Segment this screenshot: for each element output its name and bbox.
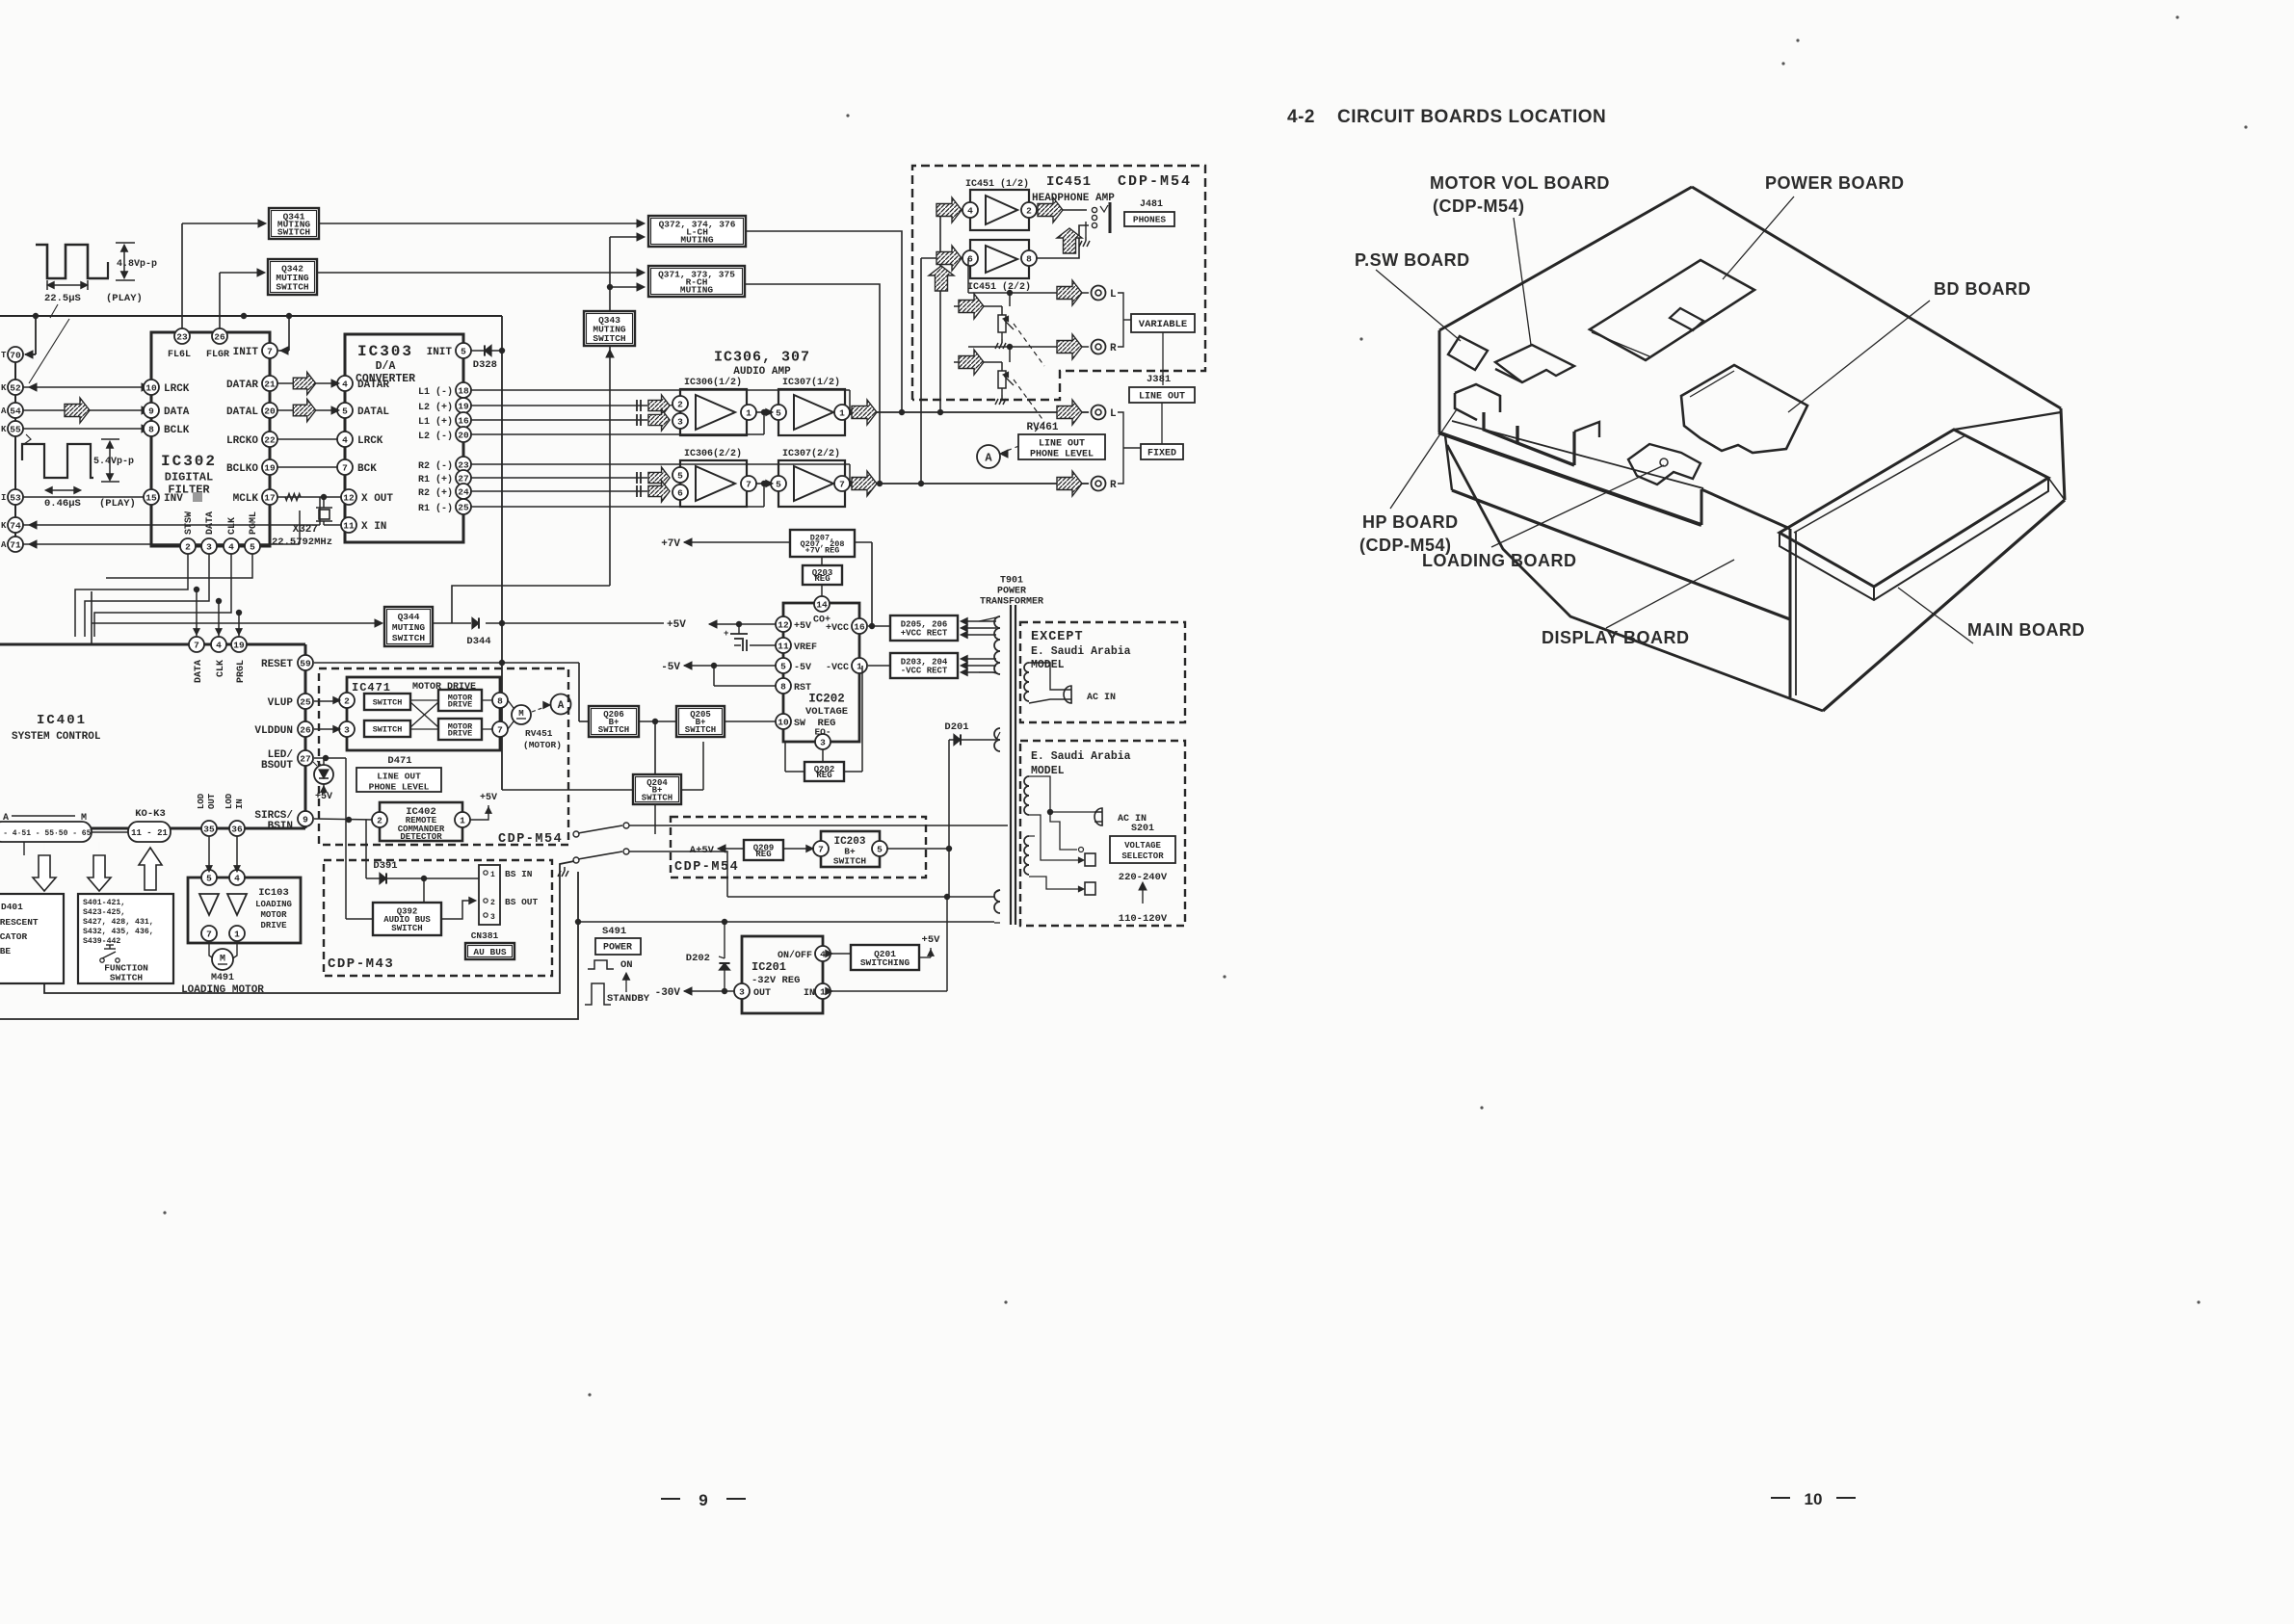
wires IC401 to IC103 [208, 836, 210, 870]
svg-text:4: 4 [967, 205, 973, 216]
svg-text:5: 5 [776, 407, 781, 418]
headphone input wires [940, 209, 962, 211]
svg-text:PHONE LEVEL: PHONE LEVEL [369, 781, 430, 792]
volume pot RV451 (2/2) [954, 361, 1002, 363]
svg-text:IC401: IC401 [37, 713, 87, 728]
INIT wire with diode D328 [471, 350, 502, 352]
wire Q341 out to Q372 [319, 223, 642, 224]
AU BUS box [465, 943, 514, 959]
svg-text:3: 3 [820, 737, 826, 747]
svg-text:S423-425,: S423-425, [83, 908, 125, 917]
D401 fluorescent indicator tube box [0, 894, 64, 983]
R-channel wires from DAC [471, 463, 850, 465]
MAIN board [1780, 430, 2048, 587]
svg-text:BS IN: BS IN [505, 869, 533, 879]
svg-text:SWITCH: SWITCH [110, 972, 144, 982]
IC302 top pins FL6L FLGR [174, 328, 190, 344]
IC201 -32V regulator [742, 936, 823, 1013]
IC302 left pins [144, 380, 159, 395]
STANDBY pulse symbol [585, 983, 611, 1005]
svg-text:PGML: PGML [249, 511, 259, 535]
svg-text:5: 5 [342, 406, 348, 416]
svg-text:LINE OUT: LINE OUT [1139, 392, 1185, 403]
svg-text:R2 (+): R2 (+) [418, 487, 453, 499]
svg-text:23: 23 [458, 459, 469, 470]
EO- wire to Q202 [822, 749, 824, 762]
svg-text:SWITCH: SWITCH [598, 725, 629, 735]
svg-text:7: 7 [267, 346, 273, 356]
svg-text:R1 (+): R1 (+) [418, 474, 453, 485]
+5V feed from D344 [502, 622, 664, 624]
svg-text:3: 3 [206, 541, 212, 552]
svg-text:RST: RST [794, 683, 811, 694]
front slab bottom edge [1452, 490, 1790, 619]
muting block Q372 L-CH [648, 216, 746, 247]
muting block Q371 R-CH [648, 266, 745, 297]
svg-text:D201: D201 [944, 721, 968, 733]
front slab right edge (double) [1789, 529, 1792, 697]
svg-text:Q344: Q344 [398, 612, 420, 622]
svg-text:24: 24 [458, 486, 469, 497]
svg-text:L1 (-): L1 (-) [418, 386, 453, 398]
svg-text:20: 20 [264, 406, 276, 416]
svg-text:REG: REG [816, 771, 831, 780]
svg-text:21: 21 [264, 379, 276, 389]
svg-text:(PLAY): (PLAY) [99, 498, 136, 510]
svg-text:IC302: IC302 [161, 453, 217, 470]
svg-text:L1 (+): L1 (+) [418, 416, 453, 428]
svg-text:DATAL: DATAL [357, 406, 389, 418]
svg-text:11: 11 [343, 520, 355, 531]
svg-text:5: 5 [877, 844, 883, 854]
top face back edge of main board shelf [1954, 412, 2061, 430]
svg-text:CDP-M54: CDP-M54 [1118, 173, 1192, 190]
svg-text:E. Saudi Arabia: E. Saudi Arabia [1031, 645, 1131, 658]
svg-text:1: 1 [820, 986, 826, 997]
svg-text:DATAR: DATAR [357, 380, 389, 391]
svg-text:INV: INV [164, 493, 183, 505]
leader loading [1491, 465, 1664, 547]
svg-text:PHONE LEVEL: PHONE LEVEL [1030, 450, 1094, 460]
svg-text:7: 7 [342, 462, 348, 473]
leader display [1606, 560, 1734, 628]
HP board piece [1455, 384, 1500, 412]
svg-text:L: L [1110, 408, 1117, 420]
svg-text:3: 3 [344, 724, 350, 735]
svg-text:SWITCH: SWITCH [373, 698, 403, 708]
rectifier box D203 204 [890, 653, 958, 678]
svg-text:59: 59 [300, 658, 311, 668]
front slab top edge with notch [1438, 432, 1701, 525]
svg-text:SELECTOR: SELECTOR [1121, 851, 1164, 861]
dashed arrow to A [532, 706, 547, 712]
svg-text:MUTING: MUTING [680, 284, 714, 295]
svg-text:SW: SW [794, 719, 805, 729]
Q209 REG box [744, 840, 783, 860]
leader motor vol [1514, 218, 1531, 345]
svg-text:1: 1 [839, 407, 845, 418]
hollow arrow up to KO-K3 [139, 848, 162, 890]
Q201 switching box [851, 945, 919, 970]
svg-text:-VCC RECT: -VCC RECT [901, 667, 948, 676]
svg-text:PRGL: PRGL [236, 660, 247, 683]
phone jack J481 [1092, 207, 1096, 212]
muting switch Q342 [268, 259, 317, 295]
wire to pin 71 [23, 543, 300, 545]
svg-text:LRCK: LRCK [164, 383, 190, 395]
svg-text:3: 3 [739, 986, 745, 997]
svg-text:5: 5 [780, 661, 786, 671]
svg-text:MODEL: MODEL [1031, 659, 1065, 671]
loading motor M491 [209, 941, 215, 959]
B+ switch Q206 [589, 706, 639, 737]
svg-text:IC307(2/2): IC307(2/2) [782, 448, 840, 459]
svg-text:SWITCH: SWITCH [642, 793, 672, 802]
svg-text:STSW: STSW [184, 511, 195, 535]
svg-text:REG: REG [755, 850, 771, 859]
wire Q342 out to Q371 [317, 272, 642, 274]
FIXED box [1161, 403, 1163, 444]
svg-text:LOADING: LOADING [255, 900, 292, 909]
svg-text:LOADING BOARD: LOADING BOARD [1422, 551, 1577, 570]
IC303 right pins [456, 343, 471, 358]
vertical wire x=633 to Q343 [609, 237, 611, 311]
LED symbol [314, 757, 324, 759]
svg-text:SYSTEM CONTROL: SYSTEM CONTROL [12, 731, 101, 743]
svg-text:4: 4 [820, 949, 826, 959]
muting switch Q341 [269, 208, 319, 239]
CDP-M43 dashed box [324, 860, 552, 976]
svg-text:+VCC RECT: +VCC RECT [901, 629, 948, 639]
svg-text:5: 5 [461, 346, 466, 356]
svg-text:LINE OUT: LINE OUT [377, 771, 421, 781]
loading motor RV451 [512, 705, 531, 724]
MOTOR VOL board [1495, 345, 1574, 382]
svg-text:7: 7 [194, 640, 199, 650]
svg-text:19: 19 [458, 401, 469, 411]
svg-text:HP BOARD: HP BOARD [1362, 512, 1459, 532]
EXCEPT E.Saudi Arabia MODEL dashed box [1020, 622, 1185, 722]
svg-text:VARIABLE: VARIABLE [1139, 319, 1187, 330]
svg-text:LINE OUT: LINE OUT [1039, 439, 1085, 450]
svg-text:POWER: POWER [603, 943, 632, 954]
svg-text:23: 23 [176, 331, 188, 342]
IC302 right pins [262, 343, 277, 358]
svg-text:5: 5 [776, 479, 781, 489]
svg-text:SWITCH: SWITCH [373, 725, 403, 735]
fixed jacks bracket [1118, 412, 1123, 484]
POWER board [1590, 260, 1754, 360]
svg-text:BD BOARD: BD BOARD [1934, 279, 2031, 299]
svg-text:IN: IN [804, 988, 815, 999]
svg-text:BSOUT: BSOUT [261, 760, 293, 772]
svg-text:IC451: IC451 [1046, 174, 1092, 190]
L-channel wires from DAC with caps [471, 389, 850, 391]
svg-text:CDP-M43: CDP-M43 [328, 956, 394, 972]
bottom rail outer [0, 872, 578, 1019]
svg-text:26: 26 [300, 724, 311, 735]
main board thickness lip [1780, 478, 2048, 600]
wire LRCK [23, 386, 147, 388]
svg-text:4: 4 [216, 640, 222, 650]
svg-text:L2 (+): L2 (+) [418, 402, 453, 413]
wire FL6L to Q341 [181, 223, 183, 328]
wire DATA with bus arrow [23, 409, 147, 411]
IC302 bottom pins with vertical labels [180, 538, 196, 554]
svg-text:FLGR: FLGR [206, 350, 229, 360]
svg-text:A: A [558, 700, 565, 712]
svg-text:FL6L: FL6L [168, 350, 191, 360]
svg-text:(CDP-M54): (CDP-M54) [1433, 196, 1525, 216]
svg-text:X OUT: X OUT [361, 493, 393, 505]
IC401 right pins [298, 655, 313, 670]
svg-text:R2 (-): R2 (-) [418, 460, 453, 472]
svg-text:+: + [724, 629, 728, 639]
IC303 D/A converter block [345, 334, 463, 542]
wire to pin 74 [23, 524, 320, 526]
svg-text:4: 4 [342, 434, 348, 445]
leader power [1723, 196, 1794, 279]
svg-text:22.5µS: 22.5µS [44, 293, 81, 304]
svg-text:MAIN BOARD: MAIN BOARD [1967, 620, 2085, 640]
svg-text:VOLTAGE: VOLTAGE [1124, 841, 1161, 851]
svg-text:DATA: DATA [164, 406, 190, 418]
svg-text:+7V: +7V [661, 538, 680, 550]
IC202 left pins [776, 616, 791, 632]
transformer -32V winding [994, 728, 1000, 751]
chassis outline (isometric) [1692, 187, 2061, 408]
svg-text:K: K [1, 383, 7, 393]
svg-text:12: 12 [343, 492, 355, 503]
IC401 bottom pins [201, 821, 217, 836]
svg-text:27: 27 [300, 753, 311, 764]
svg-text:DETECTOR: DETECTOR [400, 832, 442, 842]
svg-text:I: I [1, 493, 6, 503]
svg-text:9: 9 [303, 814, 308, 825]
svg-text:MODEL: MODEL [1031, 765, 1065, 777]
svg-text:1: 1 [234, 929, 240, 939]
svg-text:J481: J481 [1140, 199, 1163, 210]
svg-text:IC307(1/2): IC307(1/2) [782, 377, 840, 388]
diode D344 [433, 622, 471, 624]
svg-text:54: 54 [10, 406, 21, 416]
IC471 motor drive block [347, 677, 500, 750]
svg-text:AU BUS: AU BUS [473, 947, 507, 957]
svg-text:20: 20 [458, 430, 469, 440]
svg-text:POWER BOARD: POWER BOARD [1765, 173, 1905, 193]
P.SW board [1448, 336, 1488, 370]
svg-text:+5V: +5V [480, 793, 497, 803]
svg-text:L: L [1110, 289, 1117, 301]
svg-text:HEADPHONE AMP: HEADPHONE AMP [1032, 193, 1115, 204]
svg-text:S401-421,: S401-421, [83, 899, 125, 907]
svg-text:MUTING: MUTING [392, 622, 426, 633]
svg-text:8: 8 [1026, 253, 1032, 264]
svg-text:IC201: IC201 [751, 960, 786, 974]
svg-text:-30V: -30V [655, 987, 681, 999]
svg-text:-5V: -5V [661, 662, 680, 673]
IC302 digital filter block [151, 332, 270, 546]
svg-text:53: 53 [10, 492, 21, 503]
svg-text:19: 19 [233, 640, 245, 650]
svg-text:D328: D328 [473, 359, 497, 371]
svg-text:CLK: CLK [216, 660, 226, 677]
svg-text:OUT: OUT [207, 793, 217, 809]
svg-text:VREF: VREF [794, 642, 817, 653]
svg-text:15: 15 [145, 492, 157, 503]
svg-text:35: 35 [203, 824, 215, 834]
svg-text:CIRCUIT BOARDS LOCATION: CIRCUIT BOARDS LOCATION [1337, 107, 1606, 127]
svg-text:R: R [1110, 343, 1117, 354]
function switch symbol [100, 958, 104, 962]
svg-text:1: 1 [857, 661, 862, 671]
rectifier box D205 206 [890, 616, 958, 641]
svg-text:D202: D202 [686, 953, 710, 964]
svg-text:7: 7 [839, 479, 845, 489]
svg-text:DATAR: DATAR [226, 380, 258, 391]
svg-text:DATAL: DATAL [226, 406, 258, 418]
svg-text:10: 10 [1805, 1490, 1823, 1508]
svg-text:(MOTOR): (MOTOR) [523, 740, 562, 750]
page number 9 [661, 1498, 680, 1500]
Q392 audio bus switch box [373, 903, 441, 935]
svg-text:+5V: +5V [667, 619, 686, 631]
scan speckles [1796, 39, 1799, 41]
main board E corner tie [2048, 478, 2065, 500]
+5V wire to pin 12 [736, 621, 742, 627]
svg-text:SWITCH: SWITCH [277, 226, 311, 237]
svg-text:18: 18 [458, 385, 469, 396]
svg-text:IC306(1/2): IC306(1/2) [684, 377, 742, 388]
svg-text:IC202: IC202 [808, 693, 845, 706]
svg-text:6: 6 [677, 487, 683, 498]
svg-text:220-240V: 220-240V [1119, 872, 1168, 883]
svg-text:VLDDUN: VLDDUN [254, 725, 293, 737]
svg-text:22: 22 [264, 434, 276, 445]
svg-text:5: 5 [206, 873, 212, 883]
svg-text:17: 17 [264, 492, 276, 503]
svg-text:IC303: IC303 [357, 343, 413, 360]
svg-text:52: 52 [10, 382, 21, 393]
IC203 B+ switch box [821, 831, 880, 867]
hollow arrow down to function switch [88, 855, 111, 891]
svg-text:+VCC: +VCC [826, 623, 849, 634]
svg-text:DISPLAY BOARD: DISPLAY BOARD [1542, 628, 1690, 647]
svg-text:E. Saudi Arabia: E. Saudi Arabia [1031, 750, 1131, 763]
svg-text:AUDIO AMP: AUDIO AMP [733, 366, 791, 378]
page number 10 [1771, 1497, 1790, 1499]
AC plug symbol (except) [1064, 686, 1071, 703]
svg-text:D401: D401 [1, 902, 23, 912]
svg-text:A: A [1, 406, 7, 416]
bottom rail inner [44, 861, 574, 993]
svg-text:7: 7 [497, 724, 503, 735]
svg-text:AC IN: AC IN [1087, 693, 1116, 703]
svg-text:BCLKO: BCLKO [226, 463, 258, 475]
svg-text:4: 4 [228, 541, 234, 552]
VCC wires to rectifier boxes [868, 625, 890, 627]
svg-text:D/A: D/A [376, 360, 396, 373]
svg-text:P.SW BOARD: P.SW BOARD [1355, 250, 1470, 270]
svg-text:T: T [1, 351, 7, 360]
IC401 top pins DATA CLK PRGL [189, 637, 204, 652]
front slab left edge [1445, 435, 1452, 490]
leader p.sw [1376, 270, 1461, 341]
svg-text:14: 14 [816, 599, 828, 610]
L line out wire [850, 411, 1089, 413]
svg-text:2 - 4·51 - 55·50 - 65: 2 - 4·51 - 55·50 - 65 [0, 829, 92, 838]
svg-text:M: M [518, 709, 523, 719]
svg-text:SWITCH: SWITCH [276, 282, 309, 293]
loading shelf back edge [1452, 421, 1703, 488]
IC202 voltage regulator block [783, 603, 859, 742]
svg-text:4: 4 [342, 379, 348, 389]
power switch S491 contacts [573, 831, 579, 837]
-32V winding wires [727, 896, 994, 898]
svg-text:8: 8 [148, 424, 154, 434]
line out jacks L/R fixed [1092, 406, 1106, 420]
svg-text:-VCC: -VCC [826, 663, 849, 673]
svg-text:7: 7 [818, 844, 824, 854]
wires IC302 to IC303 [277, 382, 337, 384]
CDP-M54 dashed box (motor drive) [319, 668, 568, 845]
svg-text:MCLK: MCLK [233, 493, 259, 505]
wire Q371 output down to R line [745, 284, 880, 484]
svg-text:1: 1 [460, 815, 465, 825]
svg-text:10: 10 [145, 382, 157, 393]
svg-text:RESET: RESET [261, 659, 293, 670]
svg-text:MUTING: MUTING [680, 234, 714, 245]
headphone feed verticals [939, 210, 941, 412]
svg-text:POWER: POWER [997, 587, 1026, 597]
svg-text:8: 8 [780, 681, 786, 692]
SW wire from Q205 [725, 720, 776, 722]
svg-text:-32V REG: -32V REG [751, 975, 800, 986]
svg-text:CDP-M54: CDP-M54 [674, 860, 739, 875]
svg-text:IC306(2/2): IC306(2/2) [684, 448, 742, 459]
svg-text:1: 1 [746, 407, 751, 418]
svg-text:2: 2 [344, 695, 350, 706]
svg-text:2: 2 [377, 815, 382, 825]
svg-text:110-120V: 110-120V [1119, 913, 1168, 925]
svg-text:BSIN: BSIN [268, 821, 293, 832]
IC401 system control block [0, 643, 305, 646]
chassis bottom front edge [1447, 445, 1823, 711]
svg-text:25: 25 [300, 696, 311, 707]
svg-text:CDP-M54: CDP-M54 [498, 832, 563, 847]
svg-text:74: 74 [10, 520, 21, 531]
svg-text:X327: X327 [293, 524, 318, 536]
svg-text:STANDBY: STANDBY [607, 993, 650, 1005]
svg-text:RV451: RV451 [525, 728, 553, 739]
waveform 5.4Vp-p 0.46uS (PLAY) [22, 444, 93, 478]
svg-text:RV461: RV461 [1026, 422, 1058, 433]
op-amp IC451 (1/2) [970, 190, 1029, 230]
svg-text:LOD: LOD [224, 793, 234, 809]
svg-text:D391: D391 [373, 860, 397, 872]
svg-text:DIGITAL: DIGITAL [165, 470, 213, 484]
svg-text:UBE: UBE [0, 946, 11, 956]
Q202 REG box [804, 762, 844, 781]
R line out wire [850, 483, 1089, 485]
svg-text:S201: S201 [1131, 824, 1154, 834]
CDP-M54 dashed boundary (headphone area) [912, 166, 1205, 400]
power board notch [1670, 308, 1703, 330]
svg-text:D344: D344 [466, 636, 490, 647]
svg-text:+5V: +5V [794, 621, 811, 632]
IC103 loading motor drive box [188, 877, 301, 943]
variable jacks [1092, 286, 1106, 301]
